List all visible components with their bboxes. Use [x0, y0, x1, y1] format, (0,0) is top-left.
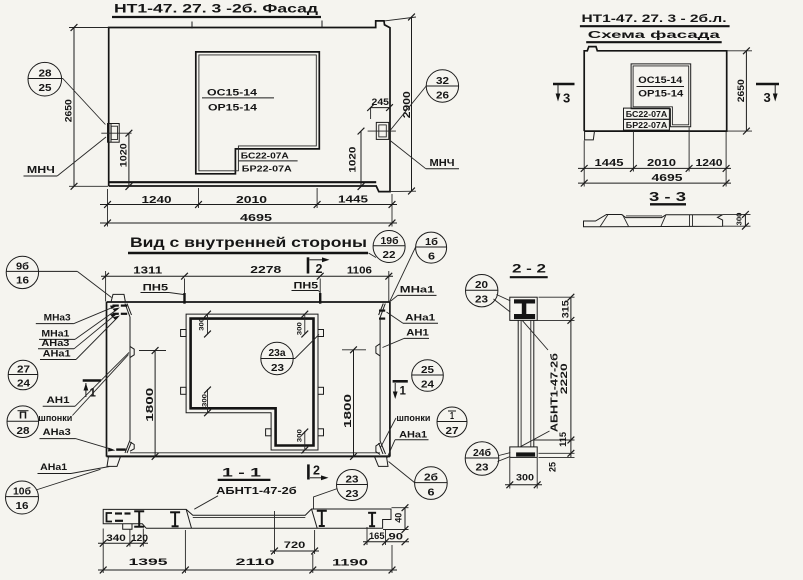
svg-text:шпонки: шпонки [396, 413, 430, 423]
bottom-right tab [375, 457, 389, 467]
svg-text:НТ1-47. 27. 3 -2б. Фасад: НТ1-47. 27. 3 -2б. Фасад [114, 4, 319, 16]
svg-text:16: 16 [16, 275, 30, 286]
svg-text:2б: 2б [424, 471, 438, 483]
callout circle 9б/16 [6, 256, 38, 288]
callout circle 27/24 [8, 360, 38, 390]
top block outline [510, 297, 537, 320]
svg-text:1106: 1106 [347, 265, 373, 276]
svg-text:АНа1: АНа1 [40, 462, 67, 472]
svg-text:АБНТ1-47-2б: АБНТ1-47-2б [216, 485, 297, 497]
label box БР22-07А [624, 119, 670, 130]
svg-text:Вид с внутренней стороны: Вид с внутренней стороны [130, 235, 367, 250]
I-beam symbol 2 [170, 512, 180, 527]
svg-text:3: 3 [764, 90, 771, 105]
svg-text:2 - 2: 2 - 2 [512, 262, 546, 276]
svg-text:ОР15-14: ОР15-14 [208, 103, 258, 114]
svg-text:АН1: АН1 [47, 395, 70, 405]
plate dashes top-left [113, 305, 119, 307]
svg-text:23: 23 [271, 363, 285, 374]
key trapezoid right lower [376, 443, 380, 454]
middle panel bottom thick edge [107, 455, 390, 457]
key trapezoid left lower [130, 442, 134, 451]
svg-text:2278: 2278 [250, 265, 282, 276]
svg-text:300: 300 [198, 318, 205, 331]
svg-text:20: 20 [475, 280, 489, 291]
middle panel top edge [107, 301, 390, 303]
window plate left lower [181, 387, 187, 394]
svg-text:1240: 1240 [696, 158, 724, 169]
svg-text:90: 90 [389, 532, 404, 542]
svg-text:22: 22 [383, 250, 397, 261]
window plate leg left [266, 429, 272, 436]
svg-text:МНа1: МНа1 [400, 285, 435, 295]
foot black plate [516, 452, 535, 456]
section marker 3 right [756, 83, 779, 86]
svg-text:340: 340 [106, 533, 126, 543]
I-beam fill bottom flange [514, 314, 535, 319]
svg-text:1800: 1800 [145, 387, 156, 422]
svg-text:300: 300 [297, 429, 304, 442]
svg-text:2: 2 [316, 262, 323, 276]
svg-text:1800: 1800 [343, 393, 354, 428]
middle window inner thick frame [191, 319, 314, 446]
svg-text:300: 300 [516, 473, 534, 484]
svg-text:МНЧ: МНЧ [430, 158, 455, 169]
extension lines top dims [105, 271, 107, 302]
extension lines 720 [274, 511, 276, 554]
svg-text:28: 28 [39, 68, 52, 80]
middle panel bottom thin line [130, 452, 380, 454]
leader 23а to plate [295, 335, 319, 359]
svg-text:2650: 2650 [64, 99, 75, 122]
svg-text:27: 27 [17, 365, 31, 376]
svg-text:АН1: АН1 [406, 328, 429, 338]
svg-text:10б: 10б [13, 486, 31, 498]
dimension 1020 left [128, 133, 130, 186]
svg-text:23а: 23а [269, 348, 286, 359]
svg-text:ОР15-14: ОР15-14 [638, 89, 683, 99]
schema panel bottom-left foot [585, 131, 595, 140]
callout circle 25/24 [412, 360, 444, 392]
section marker 2 bottom [307, 464, 310, 479]
dimension 300 [723, 213, 751, 215]
svg-text:23: 23 [475, 295, 489, 306]
dimension 245 [370, 108, 372, 119]
svg-text:25: 25 [39, 82, 52, 94]
svg-text:2110: 2110 [236, 557, 275, 568]
joint diagonal left [186, 509, 191, 528]
dimension 165 90 [363, 541, 409, 543]
dimension 300 leg [304, 431, 306, 450]
dimension 1020 right [360, 131, 362, 186]
I-beam symbol 1 [134, 511, 144, 526]
schema window inner frame [633, 66, 689, 125]
svg-text:шпонки: шпонки [38, 413, 72, 423]
callout circle 1б/6 [416, 232, 447, 263]
svg-text:АНа1: АНа1 [43, 349, 71, 359]
shaft outer walls [517, 320, 519, 447]
anchor right centerline [368, 130, 396, 132]
svg-text:ПН5: ПН5 [294, 281, 319, 291]
svg-text:3: 3 [563, 91, 570, 106]
svg-text:2650: 2650 [736, 79, 747, 102]
svg-text:24: 24 [17, 379, 31, 390]
extension lines 165 90 [366, 527, 368, 545]
svg-text:6: 6 [428, 487, 436, 498]
svg-text:2: 2 [313, 464, 320, 478]
svg-text:1: 1 [450, 411, 454, 422]
dimension 300 bottom [509, 458, 511, 489]
svg-text:БС22-07А: БС22-07А [241, 151, 289, 161]
svg-text:1020: 1020 [118, 143, 129, 167]
svg-text:300: 300 [202, 394, 209, 407]
extension lines schema dims [583, 141, 585, 187]
svg-text:165: 165 [369, 531, 385, 541]
dimension 300 top-right [304, 314, 306, 334]
dimension 2650 right [727, 50, 752, 52]
extension lines right dims [539, 296, 575, 298]
svg-text:1190: 1190 [332, 558, 368, 569]
shaft inner lines [520, 320, 522, 447]
top-left corner tab [111, 294, 125, 302]
I-beam symbol 3 [317, 511, 327, 527]
callout circle 24б/23 [465, 442, 499, 476]
facade top edge tick left [191, 22, 193, 29]
svg-text:ПН5: ПН5 [143, 283, 169, 293]
anchor plate МНЧ left [108, 124, 120, 143]
svg-text:БР22-07А: БР22-07А [242, 163, 292, 173]
section marker 2 top [307, 257, 310, 273]
profile inner lines [600, 215, 608, 227]
callout circle 23а/23 [261, 342, 293, 374]
svg-text:115: 115 [558, 432, 568, 447]
svg-text:720: 720 [284, 540, 306, 550]
extension lines bottom 1-1 [184, 530, 186, 573]
plate dash bottom-left [116, 448, 126, 450]
dimension 720 [270, 550, 319, 552]
joint diagonal right [312, 509, 318, 528]
svg-text:4695: 4695 [652, 173, 684, 184]
dimension 1800 left [139, 350, 166, 352]
svg-text:1: 1 [400, 386, 407, 398]
svg-text:25: 25 [548, 462, 558, 472]
callout circle 2б/6 [415, 467, 448, 500]
key trapezoid right upper [376, 344, 380, 356]
svg-text:23: 23 [346, 474, 360, 485]
dimension line 1311 2278 1106 [101, 275, 393, 277]
label divider line [239, 160, 298, 162]
window plate right lower [318, 387, 324, 394]
svg-text:НТ1-47. 27. 3 - 2б.л.: НТ1-47. 27. 3 - 2б.л. [582, 13, 727, 25]
section marker 1 right [393, 380, 408, 383]
svg-text:6: 6 [428, 252, 436, 263]
section 3-3 profile [584, 215, 723, 227]
section marker 1 left [83, 379, 101, 382]
dimension 300 top-left [207, 314, 209, 334]
schema panel outline [584, 47, 727, 132]
middle panel right inner line [379, 318, 381, 442]
svg-text:1311: 1311 [133, 266, 163, 277]
callout circle I/27 [437, 407, 467, 437]
svg-text:300: 300 [297, 322, 304, 335]
bottom-left tab [107, 457, 121, 467]
dimension 2900 right [385, 17, 417, 21]
schema window outer [631, 64, 691, 127]
left anchor detail [107, 513, 113, 522]
I-beam symbol 4 [368, 513, 376, 527]
svg-text:МНа1: МНа1 [41, 328, 69, 338]
svg-text:БР22-07А: БР22-07А [626, 121, 668, 130]
svg-text:9б: 9б [16, 260, 29, 272]
svg-text:23: 23 [476, 463, 490, 474]
dimension line 315 2220 115 [570, 297, 572, 457]
svg-text:1020: 1020 [348, 147, 359, 173]
svg-text:БС22-07А: БС22-07А [626, 110, 668, 119]
callout circle 19б/22 [373, 231, 405, 263]
svg-text:МНа3: МНа3 [44, 313, 71, 323]
foot outline [510, 447, 537, 458]
svg-text:24б: 24б [473, 447, 491, 459]
svg-text:27: 27 [446, 426, 460, 437]
svg-text:2220: 2220 [559, 363, 570, 394]
callout circle 20/23 [466, 275, 498, 307]
svg-text:1б: 1б [425, 236, 438, 248]
svg-text:32: 32 [436, 75, 449, 87]
svg-text:1445: 1445 [595, 158, 625, 169]
leader 28/25 to anchor [63, 79, 106, 125]
middle panel left outer edge [106, 302, 108, 457]
anchor plate МНЧ right [376, 122, 389, 139]
svg-text:ОС15-14: ОС15-14 [638, 75, 682, 85]
leader to foot [521, 431, 550, 447]
callout circle 23/23 bottom [337, 470, 368, 501]
svg-text:26: 26 [436, 90, 449, 102]
callout circle II/28 [7, 406, 39, 438]
dimension 40 [392, 507, 409, 509]
svg-text:АНа1: АНа1 [405, 313, 435, 323]
dimension 4695 [100, 222, 397, 224]
dimension line 1445 2010 1240 [578, 167, 731, 169]
svg-text:МНЧ: МНЧ [27, 165, 55, 176]
callout circle 28/25 [28, 62, 62, 96]
svg-text:245: 245 [372, 97, 390, 107]
svg-text:315: 315 [561, 300, 571, 318]
extension lines 340 120 [102, 529, 104, 547]
svg-text:1 - 1: 1 - 1 [222, 466, 262, 480]
key trapezoid left upper [130, 346, 134, 357]
plate dashes top-right [379, 310, 385, 312]
dimension 300 bottom-left [207, 389, 209, 413]
svg-text:1445: 1445 [338, 195, 369, 206]
dimension 1800 right [342, 349, 366, 351]
svg-text:3 - 3: 3 - 3 [649, 190, 686, 204]
svg-text:23: 23 [346, 489, 360, 500]
middle panel right outer edge [389, 302, 391, 457]
dimension 1395 2110 1190 [98, 569, 397, 571]
window plate left upper [181, 330, 187, 337]
svg-text:АНа1: АНа1 [399, 430, 427, 440]
dimension 340 120 [98, 542, 148, 544]
svg-text:П: П [19, 411, 27, 422]
window plate right leg [318, 429, 324, 436]
svg-text:4695: 4695 [240, 213, 273, 224]
recess second line [193, 517, 305, 519]
svg-text:1240: 1240 [142, 195, 173, 206]
middle panel left inner line [129, 317, 131, 440]
svg-text:АНа3: АНа3 [43, 427, 71, 437]
facade panel bottom thick edge [109, 181, 377, 183]
facade window opening outer [196, 52, 319, 174]
anchor left centerline [101, 132, 131, 134]
svg-text:24: 24 [421, 380, 435, 391]
extension lines bottom [107, 189, 109, 227]
callout circle 10б/16 [6, 481, 39, 514]
svg-text:40: 40 [394, 513, 404, 523]
dimension line 1240 2010 1445 [100, 204, 397, 206]
svg-text:19б: 19б [381, 235, 399, 247]
dimension 4695 [578, 182, 731, 184]
I-beam fill web [522, 304, 527, 315]
facade panel outline [109, 21, 390, 192]
leader 32/26 to anchor [391, 86, 427, 130]
facade top edge tick right [321, 21, 323, 28]
title underline [112, 16, 321, 18]
svg-text:300: 300 [737, 212, 744, 225]
svg-text:25: 25 [421, 365, 435, 376]
svg-text:2010: 2010 [236, 195, 268, 206]
section 1-1 bottom tab [123, 524, 132, 530]
svg-text:16: 16 [16, 501, 30, 512]
middle window outer [186, 314, 318, 450]
svg-text:2010: 2010 [647, 158, 677, 169]
label box БС22-07А [624, 108, 670, 119]
label divider line [202, 97, 274, 99]
section marker 3 left [553, 83, 575, 86]
svg-text:ОС15-14: ОС15-14 [207, 88, 258, 99]
dimension 2650 left [69, 27, 109, 29]
svg-text:120: 120 [131, 533, 148, 543]
section 1-1 outline [103, 509, 391, 528]
facade window opening inner frame [199, 55, 316, 171]
callout circle 32/26 [426, 70, 458, 102]
svg-text:1395: 1395 [129, 557, 169, 568]
svg-text:28: 28 [17, 426, 31, 437]
I-beam fill top flange [514, 299, 535, 303]
window plate right upper [318, 330, 324, 337]
svg-text:Схема фасада: Схема фасада [588, 29, 720, 41]
leader to block [522, 321, 548, 350]
svg-text:АНа3: АНа3 [41, 338, 69, 348]
